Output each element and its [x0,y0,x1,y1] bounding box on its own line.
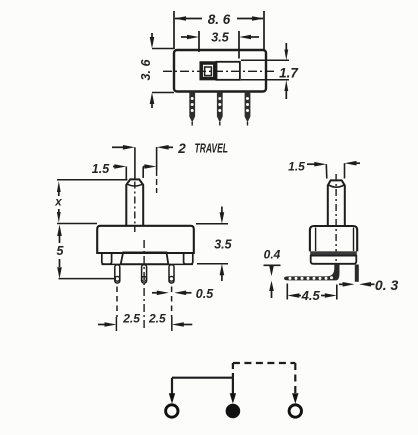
front view phantom travel centerline [156,147,158,193]
top view pin 2 [217,92,223,126]
svg-text:1.5: 1.5 [92,162,110,176]
svg-text:4.5: 4.5 [301,288,321,303]
front view center base [121,252,169,264]
dimension 3.6 left [139,33,174,108]
dimension 8.6 [174,11,264,49]
svg-text:2.5: 2.5 [122,312,140,326]
front view body [97,226,194,253]
front view pin-bottom extension line [59,278,117,280]
front view left foot [102,253,112,264]
side view base [311,256,357,264]
dimension 1.7 right [241,43,299,99]
svg-text:0.5: 0.5 [196,287,214,301]
front view body-top extension line [57,223,97,225]
top view actuator tip [205,67,212,76]
svg-text:x: x [54,197,62,209]
dimension 2.5 left [98,312,140,327]
dimension 0.5 pin width [152,287,214,301]
svg-text:0.4: 0.4 [264,247,281,261]
top view knob [201,63,215,79]
dimension 0.4 [264,247,281,298]
dimension 5 (body height) [57,225,65,279]
dimension 3.5 front right [196,207,233,282]
svg-text:2.5: 2.5 [148,312,166,326]
dimension 2.5 right [148,312,192,327]
pin 3 extension dashed [171,287,173,332]
front view shaft-top extension line [57,179,128,181]
dimension 4.5 [287,284,337,304]
schematic wire solid common-to-left [169,378,236,404]
svg-text:8. 6: 8. 6 [208,12,231,27]
side view rear pin [355,265,359,282]
front view pin 2 centerline [143,240,145,330]
schematic terminal 3 (open) [289,405,301,417]
svg-text:2: 2 [177,141,186,156]
top view slot [217,62,240,80]
side view shaft [328,180,345,226]
dimension 0.3 [339,277,398,293]
front view shaft centerline [134,147,136,232]
top view pin 3 [245,92,251,126]
top view pin 1 [189,92,195,126]
front view pin 2 [142,265,147,283]
dimension 3.5 top [181,31,259,59]
pin 1 extension dashed [115,287,118,332]
dimension 1.5 side [288,159,360,178]
svg-text:1.5: 1.5 [288,159,305,173]
schematic terminal 1 (open) [166,405,178,417]
front view right foot [184,253,193,264]
top view body [174,50,266,92]
svg-text:5: 5 [57,244,65,258]
side view seam band [310,251,357,256]
svg-text:1.7: 1.7 [279,66,299,81]
front view pin 3 [169,265,174,283]
svg-text:3.5: 3.5 [211,31,229,45]
dimension 2 TRAVEL [112,141,228,157]
svg-text:TRAVEL: TRAVEL [195,141,229,156]
front view shaft [126,179,143,226]
side view bent pin [284,264,340,281]
side view body upper [310,226,357,251]
schematic common terminal (filled) [226,404,241,419]
svg-text:3. 6: 3. 6 [139,59,153,81]
svg-text:3.5: 3.5 [214,237,232,251]
dimension x (knob height) [54,181,62,223]
svg-text:0. 3: 0. 3 [375,277,399,293]
top view centerline [163,70,277,72]
front view pin 1 [115,265,120,283]
dimension 1.5 front [92,162,157,179]
front view bottom edge line [102,263,194,265]
schematic wire dashed common-to-right [233,363,299,404]
side view centerline [335,174,337,277]
